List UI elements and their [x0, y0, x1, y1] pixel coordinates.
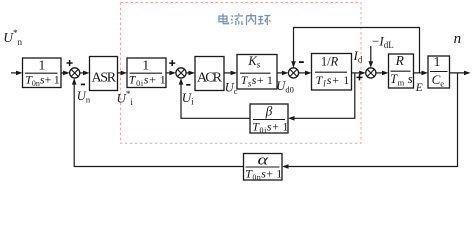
svg-text:ACR: ACR [197, 71, 223, 86]
svg-text:U*n: U*n [3, 28, 22, 47]
svg-text:β: β [265, 103, 273, 118]
svg-text:1/R: 1/R [321, 55, 339, 69]
svg-text:T0is+ 1: T0is+ 1 [252, 119, 289, 135]
svg-text:Id: Id [353, 48, 363, 65]
svg-text:Ui: Ui [182, 90, 194, 107]
svg-text:T0ns+ 1: T0ns+ 1 [25, 73, 60, 89]
svg-text:1: 1 [434, 55, 441, 70]
svg-text:Uc: Uc [225, 81, 238, 97]
svg-text:Tss+ 1: Tss+ 1 [241, 73, 273, 89]
svg-text:T0is+ 1: T0is+ 1 [129, 73, 167, 89]
svg-text:−IdL: −IdL [372, 34, 394, 51]
svg-text:Un: Un [77, 89, 91, 105]
svg-text:1: 1 [38, 58, 45, 73]
svg-text:n: n [454, 31, 462, 47]
svg-text:U*i: U*i [117, 89, 134, 107]
svg-text:E: E [415, 82, 423, 94]
svg-text:R: R [395, 53, 405, 68]
svg-text:T0ns+ 1: T0ns+ 1 [245, 166, 282, 182]
svg-text:ASR: ASR [92, 71, 117, 86]
svg-text:1: 1 [142, 58, 149, 73]
svg-text:Ud0: Ud0 [276, 79, 294, 95]
